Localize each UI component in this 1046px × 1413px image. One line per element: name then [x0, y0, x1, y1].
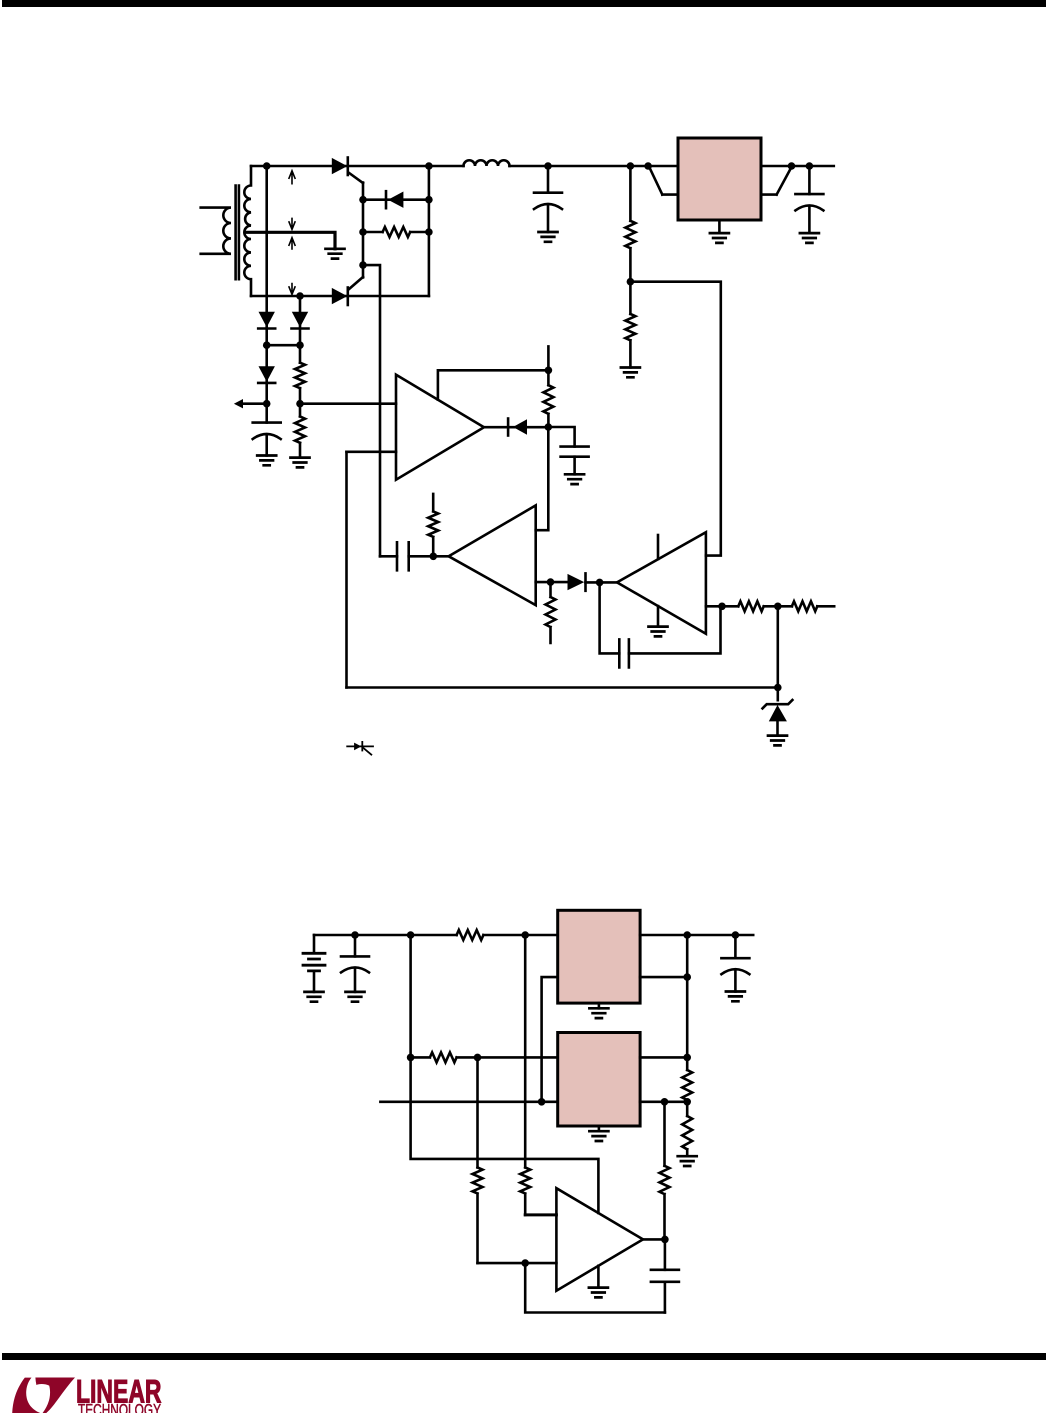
- junction dot A3 in: [596, 579, 604, 587]
- capacitor C2: [547, 166, 550, 193]
- resistor R6: [543, 370, 553, 427]
- wire output arrow left: [241, 402, 267, 405]
- junction dot A3 out: [718, 603, 726, 611]
- wire input line: [380, 1101, 557, 1104]
- capacitor C8: [734, 935, 737, 958]
- wire main bus left: [251, 165, 464, 168]
- wire zener node: [776, 606, 779, 700]
- wire U2 right pins: [640, 935, 753, 977]
- capacitor C9: [664, 1239, 667, 1269]
- junction dot (410.6,935): [407, 931, 415, 939]
- regulator U2: [558, 910, 640, 1003]
- junction dot (300,345.2): [296, 341, 304, 349]
- wire A4 output: [643, 1238, 665, 1241]
- wire main bus right: [510, 165, 679, 168]
- wire right vertical rail: [686, 935, 689, 1070]
- junction dot (541.6,1101.8): [538, 1098, 546, 1106]
- junction dot (648.1,166): [644, 162, 652, 170]
- ground C1: [257, 456, 276, 466]
- resistor R15: [473, 1168, 483, 1264]
- MARKER-MID: [234, 158, 813, 409]
- junction dot zener top: [774, 603, 782, 611]
- wire A4 plus input: [525, 1213, 556, 1216]
- ground U1: [718, 220, 721, 233]
- op-amp A2: [449, 505, 536, 605]
- diode D8 triangle: [568, 574, 585, 590]
- diode D7 triangle: [513, 419, 527, 435]
- wire A1 lower input: [347, 450, 397, 453]
- wire plus vertical: [524, 935, 527, 1168]
- wire A2 output: [536, 581, 568, 584]
- ground U2: [598, 1003, 601, 1008]
- junction dot zener node: [774, 684, 782, 692]
- ground C3: [800, 233, 819, 243]
- wire divider vertical: [476, 1057, 479, 1167]
- resistor R12 mid: [411, 1052, 558, 1062]
- transformer T1 core: [236, 186, 239, 280]
- wire A1 feedback vertical: [345, 452, 348, 688]
- junction dot A4 inv: [521, 1259, 529, 1267]
- wire left long vertical: [411, 935, 599, 1213]
- wire U1 output: [761, 165, 834, 168]
- wire second diode column: [299, 296, 302, 458]
- ground C8: [726, 992, 745, 1002]
- inductor L1: [464, 160, 510, 166]
- junction dot (687.2,1101.8): [683, 1098, 691, 1106]
- resistor R3: [295, 417, 305, 443]
- ground B1: [305, 992, 324, 1002]
- ground A3: [649, 627, 668, 637]
- ground U3: [598, 1126, 601, 1131]
- battery B1: [313, 935, 316, 953]
- resistor R10: [792, 601, 834, 611]
- diode D4 triangle: [259, 312, 275, 328]
- feedback capacitor C6: [600, 582, 620, 653]
- resistor R2: [295, 363, 305, 388]
- junction dot (266.7,166): [263, 162, 271, 170]
- wire feedback bottom: [525, 1263, 665, 1312]
- junction dot (428.9,232): [425, 228, 433, 236]
- resistor R5 divider bottom: [625, 314, 635, 368]
- wire rectifier right rail: [428, 166, 431, 296]
- junction dot (300,296): [296, 292, 304, 300]
- resistor R13: [682, 1070, 692, 1116]
- wire to A3: [586, 581, 618, 584]
- bottom border bar: [2, 1353, 1046, 1360]
- polarity arrow 1: [289, 171, 296, 185]
- polarity arrow 3: [289, 238, 296, 250]
- wire long feedback bottom: [347, 686, 778, 689]
- junction dot (355,935): [351, 931, 359, 939]
- wire node to C4: [548, 427, 574, 447]
- junction dot (791.5,166): [788, 162, 796, 170]
- op-amp A1: [396, 375, 484, 480]
- ground R14: [678, 1156, 697, 1166]
- diode D3 triangle: [332, 288, 348, 304]
- wire A1 output: [484, 426, 548, 429]
- ground R3: [291, 458, 310, 468]
- ground C7: [346, 992, 365, 1002]
- diode D6 bar: [292, 327, 309, 330]
- diode D8 bar: [584, 573, 587, 590]
- junction dot U2 lower right: [683, 973, 691, 981]
- diode D5 bar: [258, 382, 275, 385]
- resistor R7 above input: [428, 494, 438, 556]
- junction dot (687.2,935): [683, 931, 691, 939]
- diode D4 bar: [258, 327, 275, 330]
- resistor R1 across: [363, 227, 429, 237]
- regulator U1: [678, 138, 761, 220]
- junction dot divider: [627, 278, 635, 286]
- resistor R16: [520, 1168, 530, 1215]
- junction dot (477.5,1057.4): [474, 1054, 482, 1062]
- junction dot (664.5,1101.8): [661, 1098, 669, 1106]
- capacitor C5 input: [380, 555, 397, 558]
- wire U3 right pins: [640, 1057, 687, 1101]
- tiny glyph triangle: [354, 743, 361, 751]
- capacitor C1: [253, 421, 281, 424]
- top border bar: [2, 0, 1046, 7]
- resistor R14: [682, 1116, 692, 1156]
- zener Z1 triangle: [769, 705, 787, 721]
- diode D3 bottom: [349, 277, 364, 290]
- wire A3 ground stub: [657, 606, 660, 627]
- junction dot (428.9,199.7): [425, 196, 433, 204]
- junction dot (363,265.1): [359, 261, 367, 269]
- junction dot (266.7,345.2): [263, 341, 271, 349]
- zener Z1 bar: [763, 700, 793, 708]
- op-amp A4: [556, 1188, 643, 1291]
- junction dot (630.4,166): [627, 162, 635, 170]
- diode D1 triangle: [332, 158, 348, 174]
- transformer T1 secondary winding: [244, 166, 251, 296]
- diode D6 triangle: [292, 312, 308, 328]
- resistor R4 divider top: [625, 166, 635, 314]
- wire output feedback rail: [663, 1102, 666, 1166]
- junction dot A2 out: [547, 578, 555, 586]
- junction dot (363,232): [359, 228, 367, 236]
- junction dot (266.7,403.7): [263, 400, 271, 408]
- junction dot (809.4,166): [806, 162, 814, 170]
- wire A4 inv input: [478, 1262, 557, 1265]
- resistor R11: [457, 930, 558, 940]
- junction dot (363,199.7): [359, 196, 367, 204]
- wire rectifier mid rail: [362, 183, 365, 278]
- wire bottom secondary: [251, 295, 429, 298]
- junction dot (428.9,166): [425, 162, 433, 170]
- junction dot A4 out: [661, 1236, 669, 1244]
- MARKER-LOWER: [12, 1373, 161, 1413]
- wire U1 lower right pin: [761, 167, 792, 195]
- capacitor C3: [808, 166, 811, 194]
- junction dot (687.2,1057.4): [683, 1054, 691, 1062]
- wire node to long vertical: [363, 265, 380, 556]
- svg-text:TECHNOLOGY: TECHNOLOGY: [78, 1402, 161, 1413]
- wire diagonal to U1 lower pin: [649, 167, 678, 195]
- resistor R9: [738, 601, 792, 611]
- junction dot A1 out: [545, 423, 553, 431]
- logo LT mark right swoosh: [35, 1378, 75, 1413]
- polarity arrow 2: [289, 218, 296, 230]
- wire feedback tap: [630, 282, 720, 556]
- transformer center tap wire: [247, 232, 335, 249]
- junction dot (410.6,1057.4): [407, 1054, 415, 1062]
- junction dot (548,166): [544, 162, 552, 170]
- wire A4 ground stub: [597, 1266, 600, 1288]
- wire A3 output: [706, 605, 738, 608]
- MARKER-OPAMPS: [303, 910, 753, 1312]
- wire U2 lower-left pin: [542, 977, 558, 1102]
- wire top rail: [314, 934, 457, 937]
- diode D1 top: [349, 173, 364, 184]
- ground A4: [589, 1288, 608, 1298]
- resistor R17: [660, 1166, 670, 1240]
- ground C2: [539, 232, 558, 242]
- junction dot A2 in: [430, 553, 438, 561]
- wire A1 boost notch: [438, 346, 549, 399]
- capacitor C7: [354, 935, 357, 956]
- capacitor C4: [561, 447, 589, 457]
- wire down to A2: [536, 427, 549, 530]
- ground R5: [621, 368, 640, 378]
- wire connect diode columns: [267, 344, 300, 347]
- resistor R8 below A2 out: [546, 582, 556, 643]
- polarity arrow 4: [289, 283, 296, 295]
- junction dot A1 boost: [545, 367, 553, 375]
- wire zener to ground: [776, 721, 779, 735]
- junction dot (525.2,935): [521, 931, 529, 939]
- wire A3 top stub: [657, 535, 660, 559]
- transformer T1 primary winding: [201, 208, 231, 254]
- ground C4: [565, 474, 584, 484]
- logo LT mark left swoosh: [12, 1378, 40, 1413]
- diode D2 triangle: [388, 192, 403, 208]
- regulator U3: [558, 1033, 640, 1127]
- ground Z1: [768, 736, 787, 746]
- junction dot (300,403.7): [296, 400, 304, 408]
- output arrowhead left: [234, 399, 243, 408]
- wire to opamp A1 input: [300, 402, 396, 405]
- diode D7 bar: [507, 419, 510, 436]
- ground center tap: [326, 249, 345, 259]
- diode D2 clamp wire: [363, 198, 429, 201]
- diode D5 triangle: [259, 366, 275, 382]
- wire left diode rail: [265, 166, 268, 423]
- junction dot (735.4,935): [732, 931, 740, 939]
- op-amp A3: [617, 532, 706, 634]
- tiny diode legend glyph: [347, 745, 373, 747]
